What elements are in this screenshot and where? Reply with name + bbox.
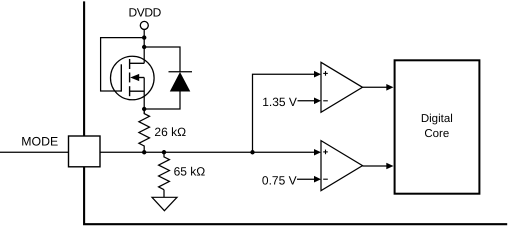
svg-text:Core: Core	[424, 128, 449, 140]
svg-text:26 kΩ: 26 kΩ	[154, 125, 186, 139]
svg-text:MODE: MODE	[21, 135, 58, 149]
svg-text:1.35 V: 1.35 V	[262, 95, 297, 109]
svg-text:65 kΩ: 65 kΩ	[174, 165, 206, 179]
svg-text:DVDD: DVDD	[129, 5, 162, 19]
svg-text:Digital: Digital	[421, 113, 453, 125]
svg-text:0.75 V: 0.75 V	[262, 173, 297, 187]
